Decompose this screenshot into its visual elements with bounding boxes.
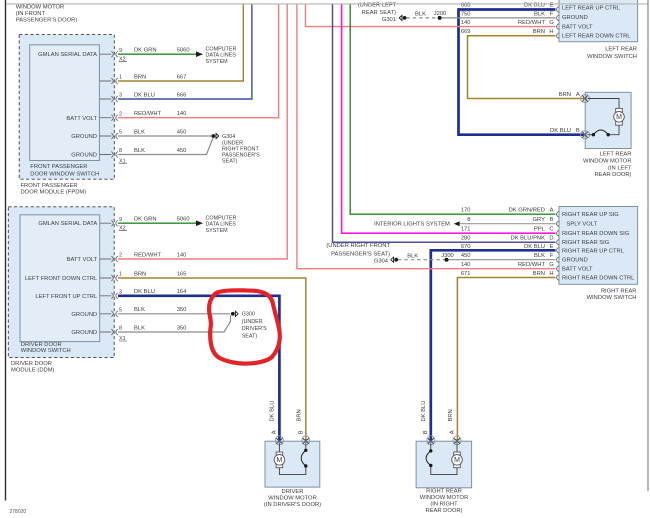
- svg-text:(IN RIGHT: (IN RIGHT: [430, 502, 458, 508]
- label 671 BRN H: [461, 271, 554, 277]
- svg-text:G304: G304: [374, 259, 389, 265]
- label 280 DK BLU/PNK D: [461, 236, 554, 242]
- svg-text:BLK: BLK: [134, 129, 145, 135]
- label BLK 350 pin8: [134, 325, 186, 331]
- svg-text:8: 8: [467, 217, 470, 223]
- right rear motor switch contact: [426, 449, 432, 467]
- svg-text:BLK: BLK: [134, 307, 145, 313]
- svg-text:D: D: [549, 236, 553, 242]
- wire BLK 450 dashed to G304: [398, 259, 556, 261]
- svg-text:280: 280: [461, 236, 471, 242]
- FPDM pin stubs and connector chevrons: [99, 51, 117, 157]
- svg-text:BLK: BLK: [534, 11, 545, 17]
- svg-text:RED/WHT: RED/WHT: [134, 111, 162, 117]
- svg-text:BATT VOLT: BATT VOLT: [66, 116, 97, 122]
- svg-text:GROUND: GROUND: [71, 330, 97, 336]
- FPDM module dashed box: [19, 35, 114, 180]
- svg-text:RED/WHT: RED/WHT: [518, 20, 546, 26]
- label 170 DK GRN/RED A: [461, 208, 554, 214]
- wire BLK 350 DDM pin8 jog to G300: [118, 315, 231, 332]
- svg-text:(IN FRONT: (IN FRONT: [16, 11, 46, 17]
- label BLK 450 pin5: [134, 129, 186, 135]
- page border top: [6, 3, 648, 5]
- FPDM switch pin labels: [38, 52, 97, 159]
- svg-text:5: 5: [119, 308, 122, 314]
- svg-text:450: 450: [177, 148, 187, 154]
- svg-text:BRN: BRN: [134, 74, 146, 80]
- svg-text:RIGHT REAR UP CTRL: RIGHT REAR UP CTRL: [562, 248, 625, 254]
- wire DK GRN 5060 DDM pin9: [118, 222, 197, 224]
- driver motor switch contact: [301, 449, 307, 468]
- label COMPUTER DATA LINES SYSTEM (top): [206, 46, 237, 65]
- svg-text:RIGHT REAR: RIGHT REAR: [601, 288, 637, 294]
- svg-text:C: C: [549, 227, 553, 233]
- svg-text:BLK: BLK: [407, 253, 418, 259]
- svg-text:F: F: [550, 11, 554, 17]
- label WINDOW MOTOR (IN FRONT PASSENGER'S DOOR): [16, 5, 78, 24]
- red annotation circle around G300: [209, 290, 280, 363]
- rotated wire labels DK BLU / BRN right rear motor: [421, 401, 454, 422]
- svg-text:5: 5: [119, 130, 122, 136]
- label 750 BLK F with BLK J200: [415, 11, 554, 17]
- svg-text:DK GRN: DK GRN: [134, 217, 157, 223]
- svg-text:DATA LINES: DATA LINES: [206, 222, 237, 228]
- svg-text:DRIVER DOOR: DRIVER DOOR: [21, 342, 62, 348]
- splice J200: [438, 16, 442, 20]
- svg-text:E: E: [550, 2, 554, 8]
- svg-text:SPLY VOLT: SPLY VOLT: [567, 222, 598, 228]
- svg-text:B: B: [576, 128, 580, 134]
- svg-text:3: 3: [119, 93, 122, 99]
- svg-text:B: B: [550, 217, 554, 223]
- svg-text:BRN: BRN: [559, 92, 571, 98]
- svg-text:1: 1: [119, 75, 122, 81]
- right rear switch pin chevrons: [557, 211, 560, 280]
- label DK BLU 666: [134, 92, 186, 98]
- svg-text:8: 8: [119, 326, 122, 332]
- svg-text:BATT VOLT: BATT VOLT: [67, 257, 98, 263]
- svg-text:PPL: PPL: [534, 227, 546, 233]
- svg-text:2: 2: [119, 111, 122, 117]
- svg-text:DK BLU: DK BLU: [134, 92, 155, 98]
- label DK GRN 5060 DDM: [134, 217, 190, 223]
- svg-text:LEFT REAR: LEFT REAR: [600, 152, 632, 158]
- wire DK BLU 666 FPDM pin3 to top: [118, 4, 252, 99]
- X2 X1 underlines DDM: [119, 231, 127, 341]
- svg-text:GROUND: GROUND: [71, 153, 97, 159]
- svg-text:9: 9: [119, 217, 122, 223]
- svg-text:BRN: BRN: [134, 271, 146, 277]
- svg-text:DK BLU/PNK: DK BLU/PNK: [511, 236, 546, 242]
- DDM pin stubs and connector chevrons: [100, 220, 118, 335]
- left rear switch pin function labels: [562, 5, 631, 39]
- right rear motor internal wiring: [431, 443, 457, 475]
- svg-text:SEAT): SEAT): [222, 158, 238, 164]
- svg-text:M: M: [616, 114, 622, 121]
- label LEFT REAR WINDOW SWITCH: [587, 46, 637, 60]
- wire BRN 671 right rear down ctrl to motor: [457, 278, 555, 442]
- svg-text:667: 667: [177, 74, 187, 80]
- svg-text:GROUND: GROUND: [562, 258, 588, 264]
- svg-text:DOOR WINDOW SWITCH: DOOR WINDOW SWITCH: [30, 171, 99, 177]
- label 140 RED/WHT G: [461, 20, 554, 26]
- page border right: [647, 0, 649, 491]
- svg-text:LEFT REAR DOWN CTRL: LEFT REAR DOWN CTRL: [562, 34, 631, 40]
- svg-text:REAR SEAT): REAR SEAT): [362, 10, 396, 16]
- label RED/WHT 140 FPDM: [134, 111, 186, 117]
- svg-text:WINDOW SWITCH: WINDOW SWITCH: [587, 295, 637, 301]
- svg-text:669: 669: [461, 29, 471, 35]
- wire DK GRN/RED 170 right rear up sig to top: [350, 4, 555, 214]
- svg-text:(UNDER RIGHT FRONT: (UNDER RIGHT FRONT: [326, 243, 390, 249]
- label G304 upper text block: [222, 134, 260, 164]
- label G301 text block: [358, 3, 397, 23]
- wire RED/WHT 140 FPDM pin2 to top: [118, 4, 279, 118]
- svg-text:G304: G304: [222, 134, 235, 140]
- driver motor pin chevrons: [275, 436, 309, 445]
- svg-text:2: 2: [119, 253, 122, 259]
- svg-text:670: 670: [461, 244, 471, 250]
- wire BLK 450 FPDM pin5 to G304: [118, 135, 212, 137]
- label 140 RED/WHT G right: [461, 262, 554, 268]
- svg-text:BLK: BLK: [134, 148, 145, 154]
- svg-text:MODULE (DDM): MODULE (DDM): [11, 367, 55, 373]
- wire BRN 165 DDM pin1 to driver motor: [118, 278, 306, 441]
- label DRIVER DOOR WINDOW SWITCH: [21, 342, 71, 354]
- svg-text:G301: G301: [382, 17, 396, 23]
- svg-text:WINDOW MOTOR: WINDOW MOTOR: [16, 5, 65, 11]
- label RIGHT REAR WINDOW MOTOR (IN RIGHT REAR DOOR): [420, 489, 469, 514]
- svg-text:LEFT REAR UP CTRL: LEFT REAR UP CTRL: [562, 5, 621, 11]
- svg-text:RIGHT REAR: RIGHT REAR: [426, 489, 462, 495]
- svg-text:171: 171: [461, 227, 471, 233]
- svg-text:5060: 5060: [177, 217, 190, 223]
- svg-text:GMLAN SERIAL DATA: GMLAN SERIAL DATA: [38, 52, 97, 58]
- svg-text:8: 8: [119, 148, 122, 154]
- svg-text:170: 170: [461, 208, 471, 214]
- wire DK BLU 670 right rear up ctrl to motor: [431, 250, 556, 441]
- svg-text:GRY: GRY: [533, 217, 546, 223]
- svg-text:5060: 5060: [177, 48, 190, 54]
- label DRIVER WINDOW MOTOR (IN DRIVER'S DOOR): [264, 489, 321, 508]
- svg-text:BATT VOLT: BATT VOLT: [562, 267, 593, 273]
- svg-text:WINDOW SWITCH: WINDOW SWITCH: [21, 348, 71, 354]
- svg-text:LEFT FRONT UP CTRL: LEFT FRONT UP CTRL: [35, 294, 98, 300]
- right rear switch pin function labels: [562, 212, 635, 281]
- svg-text:DK BLU: DK BLU: [134, 289, 155, 295]
- svg-text:(IN DRIVER'S DOOR): (IN DRIVER'S DOOR): [264, 502, 321, 508]
- svg-text:DK GRN/RED: DK GRN/RED: [509, 208, 545, 214]
- wire DK GRN 5060 FPDM pin9: [118, 53, 197, 55]
- svg-text:(UNDER: (UNDER: [242, 319, 263, 325]
- label 669 BRN H: [461, 29, 554, 35]
- svg-text:1: 1: [119, 272, 122, 278]
- left rear motor M symbol: [614, 108, 625, 125]
- svg-text:SYSTEM: SYSTEM: [206, 228, 229, 234]
- page border left: [5, 0, 7, 501]
- label G304 right text block: [326, 243, 390, 265]
- left rear motor pin chevrons: [580, 95, 589, 139]
- svg-text:DK BLU: DK BLU: [524, 244, 545, 250]
- svg-text:BRN: BRN: [533, 271, 545, 277]
- svg-text:M: M: [276, 457, 282, 464]
- svg-text:A: A: [576, 92, 580, 98]
- label RIGHT REAR WINDOW SWITCH: [587, 288, 637, 300]
- svg-text:BRN: BRN: [296, 409, 302, 421]
- svg-text:(IN LEFT: (IN LEFT: [608, 165, 632, 171]
- wire BLK 750 dashed to G301: [406, 17, 555, 19]
- wire DK BLU/PNK 280 right rear sig to top: [333, 4, 556, 242]
- svg-text:RIGHT REAR SIG: RIGHT REAR SIG: [562, 240, 610, 246]
- label BLK 450 pin8: [134, 148, 186, 154]
- left rear window motor box M1: [585, 92, 631, 148]
- svg-text:G: G: [549, 20, 554, 26]
- svg-text:140: 140: [461, 20, 471, 26]
- svg-text:H: H: [549, 29, 553, 35]
- DDM module dashed box: [8, 207, 114, 358]
- svg-text:G300: G300: [242, 312, 255, 318]
- wire DK BLU 164 DDM pin3 to driver motor: [118, 296, 279, 441]
- left rear motor switch contact: [592, 130, 610, 136]
- svg-text:668: 668: [461, 2, 471, 8]
- wire RED/WHT 140 left rear batt volt to top: [306, 4, 556, 27]
- DDM pin numbers: [119, 217, 126, 342]
- svg-text:FRONT PASSENGER: FRONT PASSENGER: [30, 164, 87, 170]
- DDM switch pin labels: [25, 221, 98, 336]
- right rear motor pin chevrons: [427, 436, 461, 445]
- right rear window motor box M3: [416, 441, 472, 488]
- svg-text:BLK: BLK: [534, 253, 545, 259]
- ground G304 (under right front passenger's seat) upper: [212, 133, 219, 139]
- label BRN 667: [134, 74, 186, 80]
- svg-text:WINDOW SWITCH: WINDOW SWITCH: [587, 54, 637, 60]
- svg-text:RED/WHT: RED/WHT: [518, 262, 546, 268]
- svg-text:B: B: [298, 430, 304, 434]
- wire PPL 171 right rear down sig to top: [342, 4, 556, 233]
- label DK BLU 164: [134, 289, 187, 295]
- svg-text:A: A: [272, 430, 278, 434]
- svg-text:WINDOW MOTOR: WINDOW MOTOR: [420, 495, 469, 501]
- driver motor M symbol: [274, 452, 285, 468]
- svg-text:DATA LINES: DATA LINES: [206, 53, 237, 59]
- svg-text:140: 140: [177, 252, 187, 258]
- label 8 GRY B: [467, 217, 553, 223]
- svg-text:G: G: [549, 262, 554, 268]
- front passenger door window switch box S1: [30, 45, 100, 161]
- svg-text:WINDOW MOTOR: WINDOW MOTOR: [268, 495, 317, 501]
- label 670 DK BLU E: [461, 244, 554, 250]
- svg-text:164: 164: [177, 289, 187, 295]
- labels BRN A / DK BLU B at motor: [550, 92, 580, 134]
- svg-text:350: 350: [177, 307, 187, 313]
- svg-text:B: B: [423, 430, 429, 434]
- svg-text:DRIVER DOOR: DRIVER DOOR: [11, 361, 52, 367]
- svg-text:DRIVER: DRIVER: [282, 489, 304, 495]
- right rear window switch box: [559, 207, 638, 285]
- svg-text:BATT VOLT: BATT VOLT: [562, 24, 593, 30]
- svg-text:DK BLU: DK BLU: [550, 128, 571, 134]
- svg-text:INTERIOR LIGHTS SYSTEM: INTERIOR LIGHTS SYSTEM: [374, 222, 450, 228]
- label BRN 165: [134, 271, 186, 277]
- svg-text:140: 140: [461, 262, 471, 268]
- X2 X1 underlines FPDM: [119, 62, 127, 164]
- svg-text:DK BLU: DK BLU: [421, 401, 427, 422]
- svg-text:350: 350: [177, 325, 187, 331]
- arrow interior lights system: [454, 221, 460, 226]
- svg-text:BLK: BLK: [415, 12, 426, 18]
- svg-text:M: M: [454, 457, 460, 464]
- left rear window switch box: [559, 0, 638, 42]
- svg-text:REAR DOOR): REAR DOOR): [594, 172, 631, 178]
- svg-text:H: H: [549, 271, 553, 277]
- svg-text:DK BLU: DK BLU: [524, 2, 545, 8]
- left rear motor internal wiring: [588, 99, 620, 135]
- label 171 PPL C: [461, 227, 554, 233]
- svg-text:F: F: [550, 253, 554, 259]
- label 450 BLK F with BLK J300: [407, 253, 554, 259]
- svg-text:J200: J200: [434, 11, 447, 17]
- svg-text:A: A: [550, 208, 554, 214]
- left rear switch pin chevrons: [557, 7, 560, 39]
- labels B / A at right rear motor: [423, 430, 456, 434]
- svg-text:GMLAN SERIAL DATA: GMLAN SERIAL DATA: [38, 221, 97, 227]
- svg-text:REAR DOOR): REAR DOOR): [425, 508, 462, 514]
- label LEFT REAR WINDOW MOTOR (IN LEFT REAR DOOR): [583, 152, 632, 179]
- label FRONT PASSENGER DOOR WINDOW SWITCH: [30, 164, 99, 177]
- svg-text:DK GRN: DK GRN: [134, 48, 157, 54]
- label DK GRN 5060: [134, 48, 190, 54]
- svg-text:RIGHT REAR DOWN CTRL: RIGHT REAR DOWN CTRL: [562, 276, 635, 282]
- ground G300 (under driver's seat): [231, 311, 238, 317]
- svg-text:DOOR MODULE (FPDM): DOOR MODULE (FPDM): [21, 190, 87, 196]
- label COMPUTER DATA LINES SYSTEM (DDM): [206, 215, 237, 234]
- splice J300: [445, 258, 449, 262]
- svg-text:BRN: BRN: [533, 29, 545, 35]
- label BLK 350 pin5: [134, 307, 186, 313]
- svg-text:COMPUTER: COMPUTER: [206, 215, 237, 221]
- svg-text:GROUND: GROUND: [71, 134, 97, 140]
- svg-text:165: 165: [177, 271, 187, 277]
- svg-text:SEAT): SEAT): [242, 334, 258, 340]
- wire GRY 8 sply volt to interior lights system: [459, 223, 556, 225]
- svg-text:SYSTEM: SYSTEM: [206, 59, 229, 65]
- svg-text:140: 140: [177, 111, 187, 117]
- svg-text:RIGHT REAR UP SIG: RIGHT REAR UP SIG: [562, 212, 619, 218]
- svg-text:GROUND: GROUND: [71, 312, 97, 318]
- svg-text:BRN: BRN: [448, 409, 454, 421]
- driver door window switch box S2: [20, 215, 100, 342]
- label G300 text block: [242, 312, 267, 340]
- svg-text:278020: 278020: [10, 509, 27, 515]
- label FRONT PASSENGER DOOR MODULE (FPDM): [21, 183, 87, 196]
- svg-text:LEFT FRONT DOWN CTRL: LEFT FRONT DOWN CTRL: [25, 276, 98, 282]
- svg-text:E: E: [550, 244, 554, 250]
- svg-text:PASSENGER'S SEAT): PASSENGER'S SEAT): [331, 251, 390, 257]
- label RED/WHT 140 DDM: [134, 252, 186, 258]
- driver motor internal wiring: [279, 443, 305, 475]
- svg-text:450: 450: [177, 129, 187, 135]
- right rear motor M symbol: [452, 452, 463, 468]
- labels A / B at driver motor: [272, 430, 305, 434]
- wire DK BLU 668 left rear up ctrl to motor pin B: [459, 10, 584, 135]
- svg-text:9: 9: [119, 48, 122, 54]
- rotated wire labels DK BLU / BRN driver motor: [270, 401, 303, 422]
- svg-text:PASSENGER'S DOOR): PASSENGER'S DOOR): [16, 18, 78, 24]
- svg-text:BLK: BLK: [134, 325, 145, 331]
- wire BRN 667 FPDM pin1 to top: [118, 4, 243, 81]
- svg-text:COMPUTER: COMPUTER: [206, 46, 237, 52]
- svg-text:FRONT PASSENGER: FRONT PASSENGER: [21, 183, 78, 189]
- svg-text:LEFT REAR: LEFT REAR: [605, 46, 637, 52]
- svg-text:450: 450: [461, 253, 471, 259]
- svg-text:J300: J300: [441, 253, 454, 259]
- svg-text:750: 750: [461, 11, 471, 17]
- svg-text:671: 671: [461, 271, 471, 277]
- svg-text:WINDOW MOTOR: WINDOW MOTOR: [583, 159, 632, 165]
- label DRIVER DOOR MODULE (DDM): [11, 361, 55, 373]
- wire BLK 450 FPDM pin8 jog to G304: [118, 138, 213, 155]
- label 668 DK BLU E: [461, 2, 554, 8]
- ground G304 (under right front passenger's seat) right: [391, 257, 398, 263]
- ground G301 (under left rear seat): [399, 15, 406, 21]
- wire BRN 669 left rear down ctrl to motor pin A: [468, 36, 584, 99]
- svg-text:A: A: [450, 430, 456, 434]
- svg-text:RED/WHT: RED/WHT: [134, 252, 162, 258]
- wire BLK 350 DDM pin5 to G300: [118, 313, 230, 315]
- FPDM pin numbers: [119, 48, 126, 165]
- driver window motor box M2: [265, 441, 320, 487]
- arrow to computer data lines (FPDM): [196, 51, 203, 57]
- svg-text:RIGHT REAR DOWN SIG: RIGHT REAR DOWN SIG: [562, 231, 630, 237]
- svg-text:DRIVER'S: DRIVER'S: [242, 326, 267, 332]
- svg-text:666: 666: [177, 92, 187, 98]
- svg-text:DK BLU: DK BLU: [270, 401, 276, 422]
- wire RED/WHT 140 right rear batt volt to top: [297, 4, 556, 269]
- wire RED/WHT 140 DDM pin2 to top: [118, 4, 287, 259]
- arrow to computer data lines (DDM): [196, 220, 203, 226]
- svg-text:GROUND: GROUND: [562, 15, 588, 21]
